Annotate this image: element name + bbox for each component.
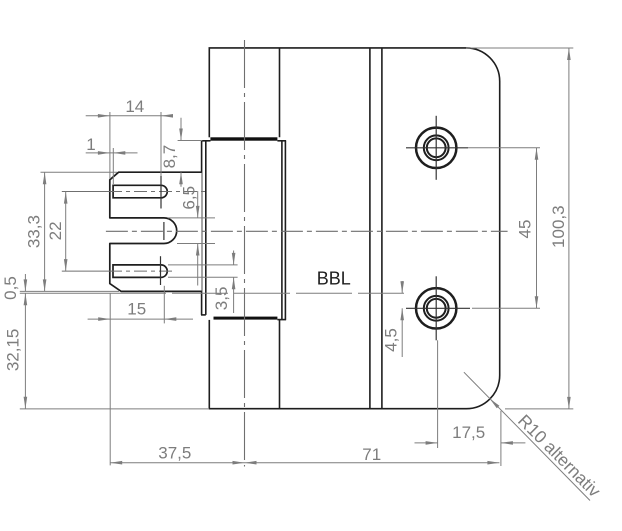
dim 6,5 reference lines bbox=[168, 217, 215, 219]
svg-text:6,5: 6,5 bbox=[179, 186, 198, 210]
dim 17,5 extension lines bbox=[437, 340, 439, 448]
svg-text:45: 45 bbox=[516, 220, 535, 239]
dim 14 arrows bbox=[98, 114, 110, 118]
svg-text:0,5: 0,5 bbox=[1, 276, 20, 300]
svg-text:32,15: 32,15 bbox=[3, 329, 22, 372]
upper slot end crosshair bbox=[160, 176, 162, 209]
svg-text:71: 71 bbox=[362, 445, 381, 464]
barrel top thick edge bbox=[210, 137, 277, 140]
svg-text:100,3: 100,3 bbox=[549, 205, 568, 248]
dim 6,5 line bbox=[197, 191, 199, 218]
dim 14 extension lines bbox=[109, 112, 111, 179]
dim 100,3 line bbox=[568, 48, 570, 409]
horizontal centerline bbox=[106, 230, 508, 232]
barrel white fill bbox=[201, 137, 286, 320]
dim 32,15 arrow bbox=[24, 397, 28, 409]
dim 37,5 line bbox=[110, 462, 244, 464]
svg-text:15: 15 bbox=[127, 299, 146, 318]
R10 leader arrow bbox=[490, 399, 500, 409]
dim 1 extension line bbox=[112, 148, 114, 184]
dim 4,5 line bbox=[401, 281, 403, 293]
dim 33,3 extension lines bbox=[41, 171, 118, 173]
svg-text:1: 1 bbox=[86, 135, 95, 154]
dim 15 extension lines bbox=[109, 294, 111, 466]
dim 45 arrows bbox=[535, 148, 539, 160]
barrel left outer wall bbox=[201, 141, 203, 315]
dim 71 line bbox=[245, 462, 500, 464]
barrel bottom thick edge bbox=[214, 317, 278, 320]
dim 71 arrows bbox=[245, 461, 257, 465]
svg-text:8,7: 8,7 bbox=[160, 145, 179, 169]
hinge leaf plate outline bbox=[209, 48, 499, 409]
dim 32,15 extension line bbox=[20, 408, 208, 410]
barrel left bottom connector bbox=[201, 314, 206, 316]
barrel right bottom connector bbox=[277, 319, 286, 321]
notch end crosshair bbox=[163, 222, 165, 240]
dim 45 line bbox=[536, 148, 538, 308]
leaf bend line 1 bbox=[369, 48, 371, 409]
dim 15 line bbox=[88, 318, 193, 320]
dim 100,3 extension lines bbox=[466, 47, 573, 49]
dim 22 line bbox=[65, 192, 67, 272]
hole 2 horizontal crosshair bbox=[406, 307, 470, 309]
dim 0,5 line bbox=[24, 274, 26, 291]
hinge axis centerline bbox=[244, 40, 246, 467]
barrel right outer wall bbox=[284, 141, 286, 320]
dim 22 arrows bbox=[64, 192, 68, 204]
svg-text:3,5: 3,5 bbox=[212, 287, 231, 311]
prong leaf outline bbox=[110, 172, 202, 291]
svg-text:4,5: 4,5 bbox=[381, 328, 400, 352]
dim 8,7 line bbox=[180, 118, 182, 141]
barrel right top connector bbox=[277, 140, 286, 142]
dim 37,5 arrows bbox=[110, 461, 122, 465]
dim 45 extension lines bbox=[468, 147, 540, 149]
hole 2 vertical crosshair bbox=[435, 276, 437, 340]
R10 leader line bbox=[464, 372, 590, 500]
dim 1 line bbox=[86, 152, 138, 154]
svg-text:14: 14 bbox=[125, 97, 144, 116]
dim 0,5 arrows bbox=[24, 279, 28, 291]
barrel left inner wall bbox=[205, 141, 207, 315]
leaf edge line left of barrel bbox=[279, 48, 281, 137]
screw hole 1 circles bbox=[416, 128, 456, 168]
dim 3,5 reference lines bbox=[168, 264, 238, 266]
lower slot centerline bbox=[62, 270, 109, 272]
dim 8,7 reference line bbox=[178, 140, 203, 142]
svg-text:17,5: 17,5 bbox=[452, 423, 485, 442]
screw hole 2 circles bbox=[416, 288, 456, 328]
dim 4,5 arrows bbox=[400, 281, 404, 293]
dim 3,5 arrows bbox=[232, 253, 236, 265]
svg-text:37,5: 37,5 bbox=[158, 443, 191, 462]
long reference line y293 bbox=[20, 292, 110, 294]
dim 1 arrows bbox=[98, 151, 110, 155]
upper slot bbox=[113, 185, 167, 198]
dim 17,5 arrows bbox=[426, 441, 438, 445]
svg-text:33,3: 33,3 bbox=[24, 215, 43, 248]
dim 3,5 line bbox=[233, 251, 235, 265]
barrel right inner wall bbox=[281, 141, 283, 320]
hole 1 vertical crosshair bbox=[435, 116, 437, 180]
lower slot end crosshair bbox=[160, 256, 162, 285]
dim 8,7 arrows bbox=[179, 129, 183, 141]
dim 33,3 arrows bbox=[43, 172, 47, 184]
upper slot centerline bbox=[62, 191, 109, 193]
hole 1 horizontal crosshair bbox=[406, 147, 468, 149]
lower slot bbox=[113, 265, 167, 278]
svg-text:22: 22 bbox=[46, 221, 65, 240]
dim 100,3 arrows bbox=[567, 48, 571, 60]
dim 32,15 line bbox=[24, 293, 26, 408]
dim 14 line bbox=[86, 115, 173, 117]
leaf bend line 2 bbox=[381, 48, 383, 409]
dim 33,3 line bbox=[44, 172, 46, 291]
svg-text:BBL: BBL bbox=[317, 268, 351, 288]
dim 6,5 arrows bbox=[196, 206, 200, 218]
dim 15 arrows bbox=[98, 317, 110, 321]
dim 17,5 line bbox=[415, 442, 438, 444]
barrel left top connector bbox=[201, 140, 211, 142]
